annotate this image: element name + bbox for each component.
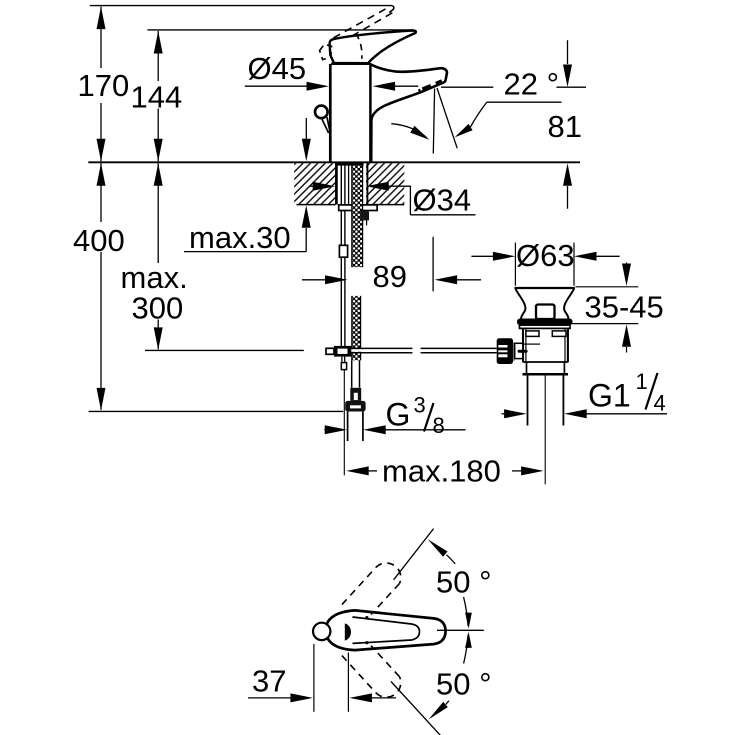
mounting washer xyxy=(339,205,377,211)
svg-text:22 °: 22 ° xyxy=(504,67,560,102)
svg-text:81: 81 xyxy=(548,109,582,144)
svg-text:170: 170 xyxy=(78,68,130,103)
svg-text:50 °: 50 ° xyxy=(436,667,492,702)
upper 50deg arc + arrows xyxy=(464,597,469,626)
svg-text:400: 400 xyxy=(73,223,125,258)
dimension Ø63 arrows xyxy=(471,255,493,257)
lever handle (closed position) xyxy=(330,31,416,64)
svg-text:Ø34: Ø34 xyxy=(413,183,472,218)
center line right of lever xyxy=(437,629,484,631)
top view pull-rod knob xyxy=(313,623,330,640)
dimension G1 1/4 arrows xyxy=(502,413,505,415)
dashed lever rotated down xyxy=(342,656,376,693)
top view D mark xyxy=(345,623,351,640)
dimension 37 arrows xyxy=(248,697,291,699)
faucet body left edge xyxy=(329,64,332,162)
faucet body right edge xyxy=(369,64,372,162)
locknut section xyxy=(526,362,528,374)
internal line xyxy=(524,343,540,345)
svg-text:35-45: 35-45 xyxy=(585,290,664,325)
stud xyxy=(362,220,364,225)
dimension G3/8 arrows xyxy=(324,429,326,431)
clevis (rod to horizontal rod) xyxy=(326,348,334,354)
shank left wall xyxy=(335,163,338,205)
countertop reference line xyxy=(88,161,580,163)
svg-text:89: 89 xyxy=(373,259,407,294)
aerator band xyxy=(436,81,442,84)
overflow slots xyxy=(526,331,539,337)
counter hatch left block xyxy=(294,163,335,204)
35-45 extension lines xyxy=(576,286,639,288)
50deg ray up xyxy=(394,529,434,580)
waste body walls xyxy=(522,328,524,362)
dimension Ø45 arrows xyxy=(245,85,308,87)
hose smooth tube xyxy=(351,360,353,387)
top view dots xyxy=(365,616,368,619)
dimension 35-45 arrows xyxy=(626,263,628,265)
svg-text:G: G xyxy=(386,397,411,433)
max30 upper arrow xyxy=(305,118,307,140)
tailpipe xyxy=(527,376,529,426)
extension line top (170 ref, tip of raised lever) xyxy=(90,5,392,7)
bottom reference line (400 / hose end) xyxy=(89,410,344,412)
pull-rod knob stem xyxy=(322,119,329,133)
svg-text:300: 300 xyxy=(132,291,184,326)
dimension max180 arrows xyxy=(346,466,369,475)
washer bar xyxy=(513,342,515,360)
dimension 81 lower arrow xyxy=(563,163,572,186)
waste body bottom line xyxy=(523,361,568,363)
knurled rod nut xyxy=(497,338,513,364)
braided hose upper segment xyxy=(352,165,363,267)
Ø63 extension lines xyxy=(514,243,516,286)
hose threaded end xyxy=(347,412,349,442)
hose hex fitting xyxy=(350,388,361,401)
lever raised position dashed arc xyxy=(356,34,362,59)
counter underside line left xyxy=(297,204,336,206)
pull-rod knob (side view) xyxy=(315,106,328,119)
svg-text:50 °: 50 ° xyxy=(436,565,492,600)
dimension max300 vertical line xyxy=(154,163,163,186)
pull rod lower part xyxy=(340,257,342,346)
lower 50deg arc + arrows xyxy=(464,635,469,664)
hose nut G3/8 xyxy=(345,401,365,412)
waste ring lower band xyxy=(520,325,571,328)
svg-text:37: 37 xyxy=(252,664,286,699)
svg-text:144: 144 xyxy=(131,80,183,115)
dimension 81 upper arrow xyxy=(567,40,569,64)
svg-text:4: 4 xyxy=(654,391,666,416)
svg-text:1: 1 xyxy=(636,369,648,394)
22deg angled line xyxy=(437,88,457,148)
Ø34 leader xyxy=(409,186,411,215)
rod stub below clevis xyxy=(341,357,343,363)
shank top dark band xyxy=(335,163,364,166)
svg-text:Ø63: Ø63 xyxy=(516,238,575,273)
mounting nut on stud xyxy=(360,211,369,221)
22deg reference line vertical xyxy=(433,89,434,154)
svg-text:G1: G1 xyxy=(588,378,631,414)
dimension 89 arrows xyxy=(302,279,325,281)
rod white channel through braid xyxy=(351,349,496,352)
dimension 89 reference line xyxy=(432,237,434,291)
svg-text:3: 3 xyxy=(414,393,426,418)
top view outer lever xyxy=(326,610,446,650)
faucet axis thin line xyxy=(343,370,345,476)
dashed lever rotated up xyxy=(342,567,376,604)
svg-text:max.180: max.180 xyxy=(382,454,501,489)
dimension 144 vertical line xyxy=(157,31,159,81)
22deg arc left with arrowhead xyxy=(391,124,426,138)
horizontal pop-up rod segment 2 xyxy=(421,347,497,349)
22deg leader line xyxy=(441,86,493,88)
spout outline xyxy=(368,63,448,162)
counter hatch right block xyxy=(366,163,404,204)
extension line 144 ref (solid lever tip) xyxy=(147,29,413,31)
lever raised position dashed line A xyxy=(334,7,390,38)
braided hose lower segment xyxy=(352,296,361,360)
adapter xyxy=(515,343,523,358)
counter underside line right xyxy=(366,204,404,206)
dimension 400 vertical line xyxy=(97,163,106,186)
top view inner contour xyxy=(353,617,420,643)
shank right wall xyxy=(366,163,368,205)
lever pin xyxy=(518,350,528,353)
waste flange cup sides xyxy=(516,289,526,319)
drain axis extension xyxy=(544,376,546,485)
50deg ray down xyxy=(391,682,441,735)
svg-text:8: 8 xyxy=(433,413,445,438)
lever knob dashed (raised) xyxy=(320,44,332,59)
faucet body top xyxy=(331,62,369,65)
shank inner line xyxy=(348,165,350,204)
22deg arc right with arrowhead xyxy=(470,102,486,127)
dimension Ø34 arrows xyxy=(310,185,314,187)
dimension 170 vertical line xyxy=(100,7,102,68)
plug pivot square xyxy=(536,305,555,320)
dimension 37 extension lines xyxy=(313,644,315,712)
max300 reference line (rod level) xyxy=(145,349,304,351)
waste flange top xyxy=(515,287,575,289)
svg-text:Ø45: Ø45 xyxy=(248,51,307,86)
hook at end of top line (dashed lever tip) xyxy=(389,6,394,13)
svg-text:max.30: max.30 xyxy=(189,220,291,255)
pull rod joint xyxy=(339,245,347,257)
lever raised position dashed line B xyxy=(352,11,396,37)
pull rod (vertical) xyxy=(340,165,342,245)
waste ring (black) xyxy=(517,319,573,326)
horizontal pop-up rod segment 1 xyxy=(351,347,412,349)
